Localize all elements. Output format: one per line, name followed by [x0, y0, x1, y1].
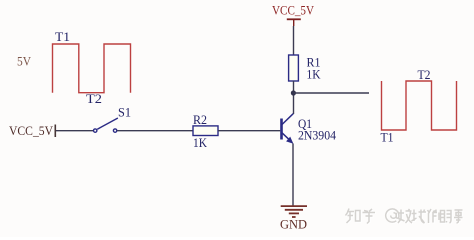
- label 1K (R1 value): [307, 68, 321, 82]
- output square-wave plot (right): [382, 81, 457, 130]
- svg-text:T1: T1: [55, 30, 70, 44]
- svg-text:2N3904: 2N3904: [298, 129, 337, 143]
- svg-text:1K: 1K: [193, 136, 207, 150]
- svg-text:5V: 5V: [17, 55, 31, 69]
- 城: [412, 210, 427, 224]
- wire: VCC to R1: [293, 26, 295, 55]
- switch S1: [94, 118, 118, 132]
- wire: R2 to transistor base: [218, 130, 280, 132]
- label T1 (right waveform low period): [381, 131, 394, 145]
- @: [386, 209, 399, 222]
- svg-text:T2: T2: [86, 92, 102, 106]
- svg-text:1K: 1K: [307, 68, 321, 82]
- transistor Q1 (NPN 2N3904): [280, 114, 293, 144]
- resistor R1: [289, 55, 299, 81]
- label 1K (R2 value): [193, 136, 207, 150]
- label R1: [307, 56, 321, 70]
- svg-text:S1: S1: [118, 106, 131, 120]
- label GND: [280, 218, 307, 232]
- 乎: [363, 209, 376, 224]
- 狮: [428, 209, 440, 223]
- 知: [346, 209, 361, 224]
- label 5V (input amplitude): [17, 55, 31, 69]
- svg-text:T1: T1: [381, 131, 394, 145]
- label Q1: [298, 117, 312, 131]
- label T1 (left waveform high period): [55, 30, 70, 44]
- junction node (collector / output): [291, 90, 296, 95]
- label T2 (left waveform low period): [86, 92, 102, 106]
- label T2 (right waveform high period): [418, 68, 431, 82]
- wire: emitter to ground: [292, 144, 294, 207]
- ground: [281, 206, 307, 217]
- wire: switch to R2: [117, 130, 193, 132]
- resistor R2: [193, 126, 218, 136]
- svg-text:GND: GND: [280, 218, 307, 232]
- wire: R1 to collector node: [293, 81, 295, 114]
- label S1: [118, 106, 131, 120]
- 哥: [454, 210, 463, 223]
- svg-text:R2: R2: [193, 113, 207, 127]
- watermark 知乎 @攻城狮鹏哥: [346, 209, 463, 224]
- svg-text:VCC_5V: VCC_5V: [9, 124, 53, 138]
- svg-text:VCC_5V: VCC_5V: [272, 3, 314, 17]
- input square-wave plot (left): [53, 44, 131, 93]
- wire: node to output: [293, 92, 369, 94]
- power port VCC_5V (top): [272, 3, 314, 26]
- 攻: [398, 209, 412, 223]
- label 2N3904: [298, 129, 337, 143]
- wire: port to switch S1: [56, 130, 93, 132]
- svg-text:T2: T2: [418, 68, 431, 82]
- 鹏: [441, 211, 452, 224]
- power port VCC_5V (left, bar style): [9, 124, 55, 138]
- label R2: [193, 113, 207, 127]
